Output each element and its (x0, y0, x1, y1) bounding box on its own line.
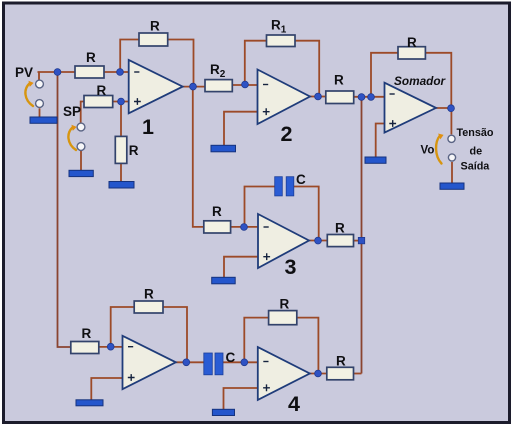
wire PV node vertical down to bottom stage (58, 72, 71, 347)
op-amp A minus mark (128, 346, 133, 348)
wire summing node vertical (361, 97, 363, 374)
wire SP stub to resistor (81, 102, 84, 123)
resistor R (opA feedback) (134, 301, 163, 313)
wire op4 feedback right (297, 318, 319, 374)
op-amp 4 minus mark (263, 361, 268, 363)
svg-text:R: R (129, 143, 139, 158)
op-amp 3 minus mark (264, 226, 269, 228)
svg-text:R: R (334, 73, 344, 88)
wire somador plus to ground (376, 124, 385, 158)
op-amp 4 (258, 347, 310, 400)
wire op1 feedback right (168, 40, 194, 87)
op-amp 2 minus mark (263, 84, 268, 86)
svg-text:PV: PV (15, 65, 33, 80)
op-amp somador (385, 83, 437, 133)
wire R1 feedback left (245, 41, 267, 85)
svg-text:Vo: Vo (421, 145, 435, 157)
ground (SP terminal) (69, 170, 93, 176)
wire R2 to op2 minus (232, 84, 257, 86)
svg-text:R: R (86, 50, 96, 65)
svg-text:R: R (335, 221, 345, 236)
terminal SP upper (77, 123, 85, 131)
resistor R (SP input) (84, 96, 113, 108)
svg-text:R: R (336, 354, 346, 369)
wire PV lower terminal to ground (39, 108, 41, 117)
svg-text:C: C (296, 172, 306, 187)
svg-text:R: R (82, 326, 92, 341)
svg-text:R: R (280, 297, 290, 312)
wire somador feedback left (371, 53, 398, 97)
terminal PV lower (36, 100, 44, 108)
resistor R (op4 output) (327, 367, 354, 380)
node PV branch (54, 69, 61, 76)
svg-text:Somador: Somador (394, 74, 447, 88)
wire R1 feedback right (295, 41, 319, 97)
wire op2 output to R (310, 96, 326, 98)
wire op1 output down to op3 input R (193, 87, 204, 227)
wire op4 plus to ground (224, 388, 258, 409)
wire op4 R to summing node (354, 373, 362, 375)
arrow PV source (25, 83, 33, 106)
node op3 minus (241, 224, 248, 231)
resistor R (PV input) (75, 66, 104, 78)
resistor R (op4 feedback) (269, 311, 297, 325)
svg-text:Saída: Saída (461, 161, 491, 173)
node op4 output (315, 370, 322, 377)
svg-text:1: 1 (142, 115, 154, 139)
svg-text:R: R (150, 19, 160, 34)
node op2 minus (242, 81, 249, 88)
wire op3 R to summing node (354, 240, 362, 242)
ground (output terminal) (440, 183, 464, 189)
op-amp 1 minus mark (134, 71, 139, 73)
wire op1 feedback left (120, 40, 139, 73)
svg-text:de: de (470, 146, 483, 158)
resistor R (opA input) (71, 342, 99, 354)
wire somador feedback right (425, 53, 451, 108)
wire R to ground (120, 163, 122, 181)
resistor R (op1 feedback) (139, 33, 168, 46)
resistor R (op1 plus to ground, vertical) (115, 136, 127, 163)
node op1 plus (118, 98, 125, 105)
svg-text:3: 3 (285, 255, 297, 279)
op-amp A plus mark (128, 374, 135, 381)
resistor R (op2 output) (326, 91, 354, 104)
capacitor C (op3 feedback) (275, 177, 283, 196)
ground (op3 plus) (212, 277, 236, 284)
wire output lower terminal to ground (451, 162, 453, 183)
svg-text:4: 4 (288, 392, 300, 416)
terminal PV upper (36, 80, 44, 88)
node opA minus (107, 343, 114, 350)
node op1 output (190, 83, 197, 90)
svg-text:2: 2 (281, 122, 293, 146)
wire opA feedback left (111, 307, 135, 347)
svg-text:R: R (144, 287, 154, 302)
op-amp 4 plus mark (263, 384, 270, 391)
ground (op1 plus R) (109, 182, 134, 189)
somador minus mark (390, 93, 395, 95)
node somador minus (368, 94, 375, 101)
ground (op2 plus) (211, 145, 236, 152)
op-amp 3 plus mark (263, 253, 270, 260)
node summing left (358, 94, 365, 101)
wire op1 plus node down to R (120, 102, 122, 137)
terminal output lower (448, 154, 455, 161)
ground (somador plus) (365, 157, 386, 163)
capacitor C (derivative coupling) (204, 353, 213, 375)
wire op4 feedback left (244, 318, 268, 363)
wire op4 output to R (310, 373, 327, 375)
op-amp 1 (129, 60, 183, 113)
wire PV terminal stub (38, 72, 40, 80)
op-amp A (bottom-left) (123, 336, 176, 389)
somador plus mark (389, 120, 396, 127)
svg-text:C: C (226, 350, 236, 365)
svg-text:R: R (407, 35, 417, 50)
resistor R2 (205, 80, 232, 92)
wire SP resistor to op1 plus (113, 101, 129, 103)
wire opA input R to minus (99, 346, 123, 348)
wire opA feedback right (163, 307, 187, 362)
svg-text:Tensão: Tensão (457, 127, 494, 139)
resistor R (somador feedback) (398, 47, 425, 59)
wire op1 output to R2 (183, 86, 205, 88)
svg-text:SP: SP (63, 104, 81, 119)
node opA output (183, 359, 190, 366)
wire opA plus to ground (91, 378, 122, 400)
wire op3 input R to minus (231, 226, 258, 228)
svg-text:R: R (97, 83, 107, 98)
node somador output (448, 105, 455, 112)
svg-text:R: R (212, 204, 222, 219)
wire op3 cap feedback left (245, 187, 275, 228)
ground (PV terminal) (30, 117, 57, 123)
wire SP lower terminal to ground (80, 151, 82, 171)
arrow SP source (68, 127, 76, 150)
op-amp 3 (258, 214, 309, 268)
arrow Vo output (436, 136, 441, 164)
op-amp 2 (258, 70, 311, 125)
node summing mid (square) (358, 237, 364, 243)
terminal output upper (448, 135, 455, 142)
wire somador output to terminal (436, 108, 451, 134)
wire op3 output to R (309, 240, 327, 242)
wire PV input row to op1 minus (38, 71, 129, 73)
wire op2 plus to ground (224, 112, 258, 146)
op-amp 1 plus mark (134, 98, 141, 105)
ground (op4 plus) (212, 409, 234, 415)
node op2 output (315, 93, 322, 100)
node op1 minus (117, 69, 124, 76)
wire R to somador minus (354, 96, 385, 98)
wire cap to op4 minus (223, 361, 258, 363)
resistor R (op3 output) (327, 235, 353, 247)
resistor R1 (op2 feedback) (267, 35, 296, 47)
resistor R (op3 input) (204, 221, 231, 233)
node op4 minus (241, 359, 248, 366)
ground (opA plus) (76, 400, 103, 406)
node op3 output (315, 237, 322, 244)
terminal SP lower (77, 143, 85, 151)
op-amp 2 plus mark (263, 108, 270, 115)
wire op3 cap feedback right (294, 187, 319, 241)
wire opA output to cap (176, 361, 204, 363)
wire op3 plus to ground (224, 257, 258, 278)
